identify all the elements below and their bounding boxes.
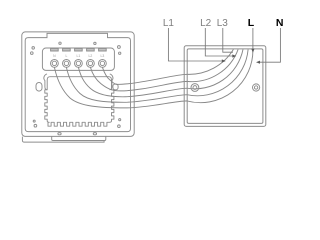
svg-text:N: N	[53, 54, 56, 58]
svg-text:L1: L1	[77, 54, 81, 58]
svg-text:N: N	[276, 17, 284, 29]
svg-text:L2: L2	[200, 18, 212, 29]
svg-text:L1: L1	[163, 18, 175, 29]
svg-text:L3: L3	[217, 18, 229, 29]
svg-text:L3: L3	[101, 54, 105, 58]
svg-text:L2: L2	[89, 54, 93, 58]
svg-text:L: L	[65, 54, 67, 58]
svg-text:L: L	[248, 17, 255, 29]
